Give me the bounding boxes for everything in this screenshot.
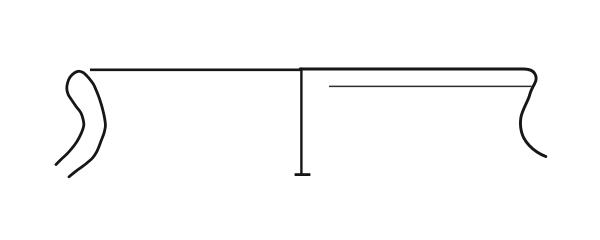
rim top line and exterior break-edge profile (right half)	[300, 69, 546, 157]
rim top line (left half)	[90, 69, 301, 72]
interior rim line (right half)	[329, 85, 532, 87]
center axis line	[300, 67, 302, 174]
axis base tick	[295, 173, 311, 176]
rim section profile (left sherd cross-section)	[56, 71, 105, 177]
